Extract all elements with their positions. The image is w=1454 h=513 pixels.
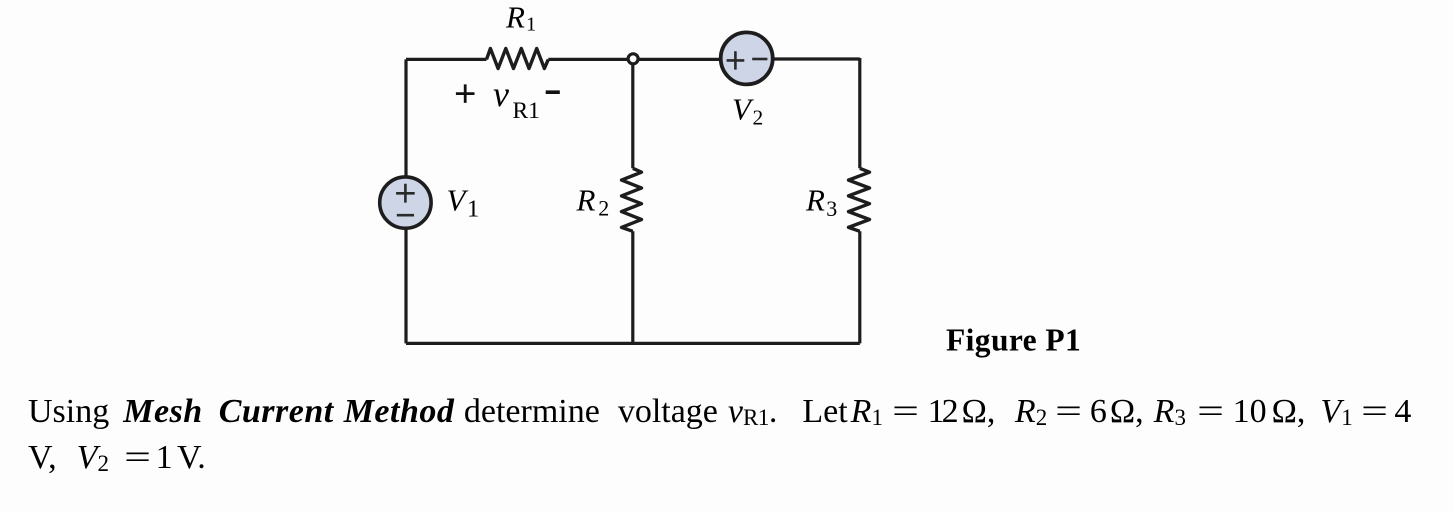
- resistor R2 zigzag: [622, 168, 642, 231]
- wire middle branch (node down to R2): [631, 59, 634, 168]
- svg-text:R: R: [505, 0, 525, 35]
- wire middle branch (R2 down to bottom wire): [631, 231, 634, 343]
- label R2: [576, 182, 610, 220]
- wire right branch (top-right corner down to R3): [858, 58, 861, 168]
- minus sign of vR1 polarity: [546, 90, 560, 94]
- voltage source V2 circle: [721, 32, 773, 84]
- label V2: [732, 92, 763, 130]
- wire bottom: [406, 342, 860, 345]
- svg-text:2: 2: [598, 196, 609, 221]
- V2 plus symbol: [727, 51, 745, 69]
- label V1: [447, 183, 480, 223]
- wire top (R1 to node and on to V2): [548, 58, 722, 61]
- label R3: [805, 182, 837, 221]
- svg-text:V: V: [447, 183, 469, 218]
- svg-text:V: V: [732, 92, 754, 127]
- V1 minus symbol: [397, 214, 414, 217]
- wire top (V2 to top-right corner): [770, 57, 860, 60]
- V1 plus symbol: [396, 184, 415, 203]
- resistor R3 zigzag: [849, 168, 870, 231]
- label R1: [505, 0, 536, 36]
- svg-text:Figure P1: Figure P1: [946, 323, 1081, 358]
- problem statement paragraph: [28, 389, 1454, 481]
- voltage source V1 circle: [380, 177, 431, 228]
- svg-text:R1: R1: [513, 98, 540, 124]
- wire left branch (top-left corner down to V1): [404, 59, 407, 202]
- svg-text:3: 3: [826, 196, 837, 221]
- wire top (left corner to R1): [406, 58, 487, 61]
- svg-text:1: 1: [467, 196, 479, 223]
- resistor R1 zigzag: [487, 49, 549, 69]
- svg-text:R: R: [805, 182, 825, 217]
- node junction (open circle): [628, 54, 638, 64]
- svg-text:1: 1: [526, 14, 536, 36]
- svg-text:R: R: [576, 182, 596, 217]
- label vR1: [493, 74, 540, 124]
- svg-text:2: 2: [753, 106, 764, 130]
- plus sign of vR1 polarity: [456, 84, 475, 103]
- wire right branch (R3 down to bottom-right corner): [858, 231, 861, 343]
- V2 minus symbol: [752, 58, 767, 61]
- wire left branch (V1 down to bottom-left corner): [404, 202, 407, 343]
- svg-text:v: v: [493, 74, 509, 114]
